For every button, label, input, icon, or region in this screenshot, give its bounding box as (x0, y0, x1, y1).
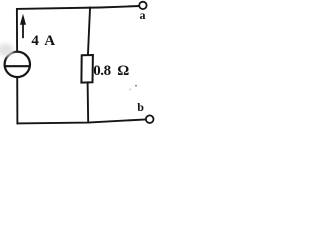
svg-text:b: b (137, 100, 144, 114)
svg-text:A: A (44, 33, 55, 49)
resistor R1 body (81, 55, 93, 83)
speckle smudge (129, 88, 131, 90)
svg-text:0.8: 0.8 (93, 63, 111, 79)
current arrow head (20, 14, 26, 25)
wire bottom horizontal (17, 119, 147, 123)
wire resistor branch lower (87, 83, 90, 124)
svg-text:Ω: Ω (117, 63, 129, 79)
wire left vertical lower (16, 77, 18, 125)
wire top horizontal (16, 6, 140, 9)
speckle dot (135, 85, 137, 87)
terminal b circle (146, 115, 154, 123)
current source I1 circle (5, 52, 30, 77)
wire left vertical upper (16, 8, 18, 52)
svg-text:4: 4 (31, 33, 39, 49)
current arrow shaft (22, 24, 24, 39)
wire resistor branch upper (88, 7, 90, 56)
svg-text:a: a (140, 8, 146, 22)
scan shading blob (0, 44, 14, 57)
current source I1 chord (5, 65, 30, 67)
terminal a circle (139, 2, 146, 9)
